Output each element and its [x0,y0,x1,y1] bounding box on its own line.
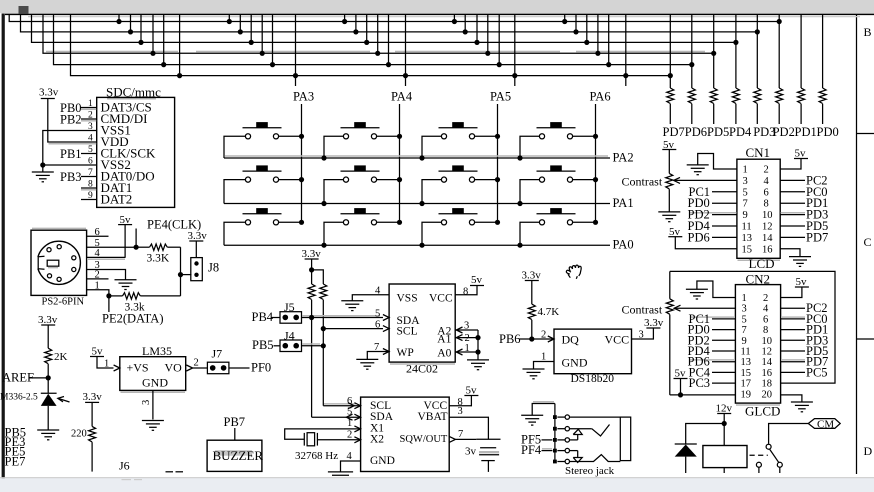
RTC SDA wire in [312,416,361,418]
svg-text:PD4: PD4 [729,125,752,139]
chrome: toolbar notch top-left [19,6,29,14]
relay switch common pole [766,444,771,449]
svg-text:5v: 5v [796,276,808,288]
svg-text:2: 2 [95,270,100,281]
svg-text:PB6: PB6 [499,332,521,346]
svg-text:PS2-6PIN: PS2-6PIN [42,297,85,308]
svg-text:PD6: PD6 [685,125,707,139]
CN1 pin16 wire to ground [780,249,800,257]
svg-text:PE2(DATA): PE2(DATA) [102,312,164,326]
PE4 label leader [135,229,137,248]
svg-text:3.3v: 3.3v [83,391,103,403]
svg-text:6: 6 [88,157,93,167]
S21 right wire [278,179,301,181]
svg-text:PB1: PB1 [60,147,82,161]
CN1 pin8 wire [780,202,805,204]
svg-text:WP: WP [397,347,414,359]
svg-text:5v: 5v [675,368,687,380]
ground at 24C02 address pins [467,360,489,370]
S32 right wire [376,221,399,223]
bus tap group 1 verticals [118,14,120,21]
SCL wire to 24C02 pin6 [323,328,383,330]
svg-text:GND: GND [370,455,395,467]
svg-text:6: 6 [764,187,769,198]
keypad column line PA3 [301,104,303,222]
relay switch common wire to CM [769,424,809,444]
S11 right wire [278,135,301,137]
CN1 pin7 wire [712,202,737,204]
svg-text:PB2: PB2 [60,113,82,127]
S24 right wire [572,179,595,181]
bus tap group 4 verticals (PA5) [453,14,455,21]
resistor 4.7K [531,281,533,305]
keypad row line PA2 [224,157,610,159]
CN1 pin10 wire [780,214,805,216]
svg-text:24C02: 24C02 [406,362,438,376]
CN1 pin12 wire [780,225,805,227]
svg-text:4.7K: 4.7K [538,306,560,318]
contrast trimmer R (GLCD) [669,271,671,298]
svg-text:17: 17 [741,379,752,390]
S22 left wire [324,180,344,204]
stereo jack tip contact wire [570,428,592,430]
ground for SDC VSS [32,172,54,182]
svg-text:5v: 5v [795,148,807,160]
junction at J8 [178,272,183,277]
SDC pin 6 VSS2 wire [43,164,97,166]
resistor 3.3k (DATA pullup) [109,295,123,297]
PF4 wire [542,450,553,452]
frame zone tick B/C [857,133,874,135]
bus tap group 4 junctions [452,19,457,24]
svg-text:PD7: PD7 [806,230,828,244]
tip switch stem [577,435,579,440]
backup battery 3v [476,438,500,440]
reference diode LM336-2.5 [41,392,57,394]
svg-text:SQW/OUT: SQW/OUT [400,434,448,445]
RTC SCL wire in [323,405,360,407]
svg-text:1: 1 [465,343,470,354]
svg-text:VSS: VSS [397,293,418,305]
svg-text:3.3v: 3.3v [302,248,322,260]
bus line h2 with left bend [21,14,758,32]
svg-text:13: 13 [742,233,753,244]
PS2 pin holes [47,248,51,252]
contrast wiper arrow to CN2 pin3 [675,307,736,309]
svg-text:PA0: PA0 [613,238,634,252]
svg-text:7: 7 [88,168,93,178]
stereo jack pin circles [565,415,569,419]
svg-text:3.3K: 3.3K [147,253,170,265]
SDC pin 7 stub [81,176,97,178]
resistor 2K (AREF) [47,325,49,348]
24C02 pin7 wire to ground [367,352,389,360]
svg-text:PF4: PF4 [521,443,542,457]
pushbutton S34 [537,208,576,225]
svg-text:3: 3 [742,304,747,315]
CN2 connector box [735,285,780,404]
svg-text:9: 9 [88,191,93,201]
CN2 pin6 wire [781,318,805,320]
bus tap group 3 verticals (PA4) [344,14,346,21]
svg-text:12: 12 [762,347,773,358]
pull-up resistor R-PD0 column [822,14,824,88]
24C02 address strap vertical [477,330,479,360]
svg-text:PD6: PD6 [688,230,710,244]
svg-text:1: 1 [95,280,100,291]
RTC SCL pin arrows [348,403,354,409]
SDC pin 3 wire to ground rail [43,131,97,173]
stereo jack pin links [557,416,565,418]
S11 left wire [224,136,246,158]
J6 dashes [166,471,174,473]
svg-text:3.3v: 3.3v [522,269,542,281]
svg-text:DS18b20: DS18b20 [571,373,615,385]
svg-text:PB7: PB7 [224,415,246,429]
svg-text:J6: J6 [119,459,130,473]
LM35 pin1 wire [97,357,114,369]
SDC pin 2 stub [81,118,97,120]
svg-text:3: 3 [464,320,469,331]
wire 12v to flyback diode [686,424,725,445]
jack mid contact wire [570,439,578,441]
svg-text:5: 5 [375,309,380,320]
stereo jack body [620,417,630,461]
svg-text:X1: X1 [370,422,384,434]
AREF wire [30,377,49,379]
svg-text:18: 18 [762,379,773,390]
svg-text:LM35: LM35 [142,344,172,358]
CN2 pin7 wire [712,329,735,331]
bus tap group 2 junctions [227,19,232,24]
svg-text:14: 14 [762,357,773,368]
bus line h3 with left bend [32,14,736,42]
CN1 pin13 wire [712,236,737,238]
contrast wiper arrow to CN1 pin3 [674,179,737,181]
LM35 output arrow [186,365,192,371]
svg-text:PD1: PD1 [795,125,817,139]
svg-text:PE7: PE7 [5,454,26,468]
svg-text:7: 7 [374,342,379,353]
CN2 pin8 wire [781,329,805,331]
pull-up resistor R-PD6 column [691,14,693,88]
ground at DS18b20 [523,369,545,379]
junctions on address strap [475,335,480,340]
I2C pullup feed wires [311,259,313,284]
CN2 pin11 wire [712,350,735,352]
svg-text:9: 9 [742,336,747,347]
RTC SDA pin arrows [346,414,352,420]
DS18b20 box [554,329,632,374]
svg-text:PA3: PA3 [293,90,314,104]
RTC DS1307 box [361,397,450,471]
svg-text:SCL: SCL [370,400,391,412]
svg-text:2K: 2K [54,351,68,363]
pushbutton S21 [243,165,282,182]
svg-text:M336-2.5: M336-2.5 [0,392,38,402]
CN2 pin12 wire [781,350,805,352]
pushbutton S14 [537,122,576,139]
CN2 pin1 wire to ground [697,281,736,298]
CN2 pin15 wire [712,371,735,373]
24C02 pin4 wire to ground [352,295,389,301]
RTC SQW/OUT pin7 wire [449,436,455,442]
CN1 pin1 wire to ground [698,154,737,170]
DS18b20 DQ arrow [548,336,554,342]
PS2 pin2 stub [87,278,109,280]
svg-text:SCL: SCL [397,325,418,337]
svg-text:3.3v: 3.3v [38,314,58,326]
junction 12v [722,421,727,426]
keypad row line PA1 [224,203,610,205]
svg-text:PA1: PA1 [613,196,634,210]
stereo jack ground [521,415,543,425]
24C02 pin8 wire to 5v [455,286,477,295]
PS2 key slot rect [47,260,59,266]
ground under LM35 [142,421,164,431]
pull-up resistor R-PD2 column [778,14,780,88]
chrome: bottom status strip [0,478,874,492]
svg-text:4: 4 [95,248,101,259]
12v feed wire [723,414,725,446]
svg-text:5v: 5v [466,385,478,397]
ground at CN2 pin1 [686,289,708,299]
PS2 pin6 stub [87,235,109,237]
bus tap group 5 verticals (PA6) [564,14,566,21]
svg-text:11: 11 [741,347,751,358]
svg-text:6: 6 [95,227,100,238]
pushbutton S24 [537,165,576,182]
svg-text:3.3v: 3.3v [644,317,664,329]
ground at CN1 pin1 [687,165,709,175]
svg-text:LCD: LCD [749,256,775,271]
svg-text:PD0: PD0 [817,125,839,139]
CN2 pin14 wire [781,361,805,363]
CN1 pin5 wire [712,191,737,193]
svg-text:14: 14 [762,233,773,244]
svg-text:PD5: PD5 [707,125,729,139]
ground at CN2 pin20 [791,402,813,412]
keypad junction dots on columns [299,134,304,139]
24C02 A1 pin2 wire [455,337,478,339]
svg-text:PA4: PA4 [391,90,413,104]
svg-text:J7: J7 [212,347,223,361]
svg-text:16: 16 [762,244,773,255]
CN2 pin13 wire [712,361,735,363]
PS2 pin3 wire to ground [87,270,126,280]
jack ring contact wire [570,450,578,452]
svg-text:BUZZER: BUZZER [213,448,264,463]
CN2 loop frame top to pin18 [670,271,835,383]
svg-text:4: 4 [763,304,769,315]
svg-text:6: 6 [763,314,768,325]
RTC VBAT wire to battery [449,417,488,439]
bus right end junctions on pull-up columns [668,73,673,78]
junction SDA at pullup [309,315,314,320]
svg-text:32768 Hz: 32768 Hz [295,450,338,462]
ring switch stem [577,451,579,458]
mouse hand cursor [566,265,581,279]
svg-text:C: C [864,235,872,249]
svg-text:15: 15 [742,244,753,255]
svg-text:1: 1 [347,418,352,429]
S33 left wire [422,222,442,245]
svg-text:Contrast: Contrast [622,302,663,316]
PS2 pin5 wire (CLK) [87,246,137,248]
CN2 pin4 wire [781,307,805,309]
net flag CM [808,419,840,429]
relay switch lever [770,449,779,463]
wire J8 to junction [181,274,192,276]
SDC/mmc connector box [97,97,175,207]
svg-text:8: 8 [88,180,93,190]
S23 right wire [474,179,497,181]
SDC pin 5 stub [81,153,97,155]
SDC pin 8 stub [81,187,97,189]
BUZZER box [207,440,262,471]
CN2 pin5 wire [712,318,735,320]
junction 5v pot [678,392,683,397]
svg-text:VBAT: VBAT [418,411,448,423]
relay coil bottom stub [723,468,725,473]
resistor 3.3K (CLK pullup) [150,244,168,250]
svg-text:2: 2 [347,429,352,440]
24C02 A0 pin1 wire [455,351,478,353]
svg-text:5: 5 [743,187,748,198]
jack bottom wire with spring bump [570,455,621,462]
S31 right wire [278,221,301,223]
CN1 pin6 wire [780,191,805,193]
svg-text:1: 1 [541,351,546,362]
resistor SDA pullup [308,284,315,300]
svg-text:GND: GND [562,356,588,370]
svg-text:PB5: PB5 [252,338,274,352]
CN2 pin19 wire [670,394,736,396]
pull-up resistor R-PD5 column [713,14,715,88]
svg-text:1: 1 [743,165,748,176]
keypad row line PA0 [224,244,610,246]
bus line h4 with left bend [43,14,714,53]
CN2 pin20 wire to ground [781,395,802,402]
CN2 pin17 wire [712,382,735,384]
PB6 wire to DQ [520,338,555,340]
svg-text:GLCD: GLCD [745,404,780,419]
bottom-left stray dashes [122,479,132,481]
chrome: top toolbar strip [0,0,874,13]
ground bar at RTC [328,471,353,473]
svg-text:7: 7 [742,325,747,336]
relay coil box [703,446,747,468]
PB4 wire to J5 [272,317,281,319]
svg-text:VCC: VCC [424,400,448,412]
pushbutton S12 [341,122,380,139]
S34 left wire [520,222,540,245]
svg-text:4: 4 [375,286,381,297]
tip switch triangle [573,429,582,434]
bus line h5 with left bend [54,14,692,64]
bus line h4 gray shadow [46,51,178,53]
svg-text:16: 16 [762,368,773,379]
svg-text:3.3v: 3.3v [39,87,59,99]
flyback diode [675,443,697,445]
RTC X2 arrow [354,437,360,443]
PS2 connector box [31,230,87,295]
svg-text:VO: VO [165,360,183,374]
J4 to SCL wire [302,345,324,347]
S13 right wire [474,135,497,137]
svg-text:CN1: CN1 [746,145,771,160]
svg-text:PD2: PD2 [773,125,795,139]
svg-text:4: 4 [347,451,353,462]
CN2 pin16 wire [781,371,805,373]
junction DATA pullup [106,293,111,298]
junction PB6 pullup [529,336,534,341]
CN2 pin9 wire [712,339,735,341]
RTC X1 arrow [354,426,360,432]
svg-text:3: 3 [639,329,644,340]
S22 right wire [376,179,399,181]
svg-text:PF0: PF0 [251,361,271,375]
CN1 pin4 wire [780,179,805,181]
svg-text:19: 19 [741,389,752,400]
pushbutton S33 [439,208,478,225]
SDC pin 4 VDD wire from 3.3v [48,99,97,143]
resistor 220 [91,402,93,426]
junction pullup branch [309,267,314,272]
svg-text:+VS: +VS [127,360,149,374]
crystal 32768Hz plates [303,433,305,446]
svg-text:5v: 5v [92,346,104,358]
svg-text:DAT2: DAT2 [101,192,133,207]
svg-text:PC3: PC3 [689,376,711,390]
svg-text:2: 2 [764,165,769,176]
ground at PS2 pin3 [115,280,137,290]
svg-text:VCC: VCC [605,333,630,347]
svg-text:DQ: DQ [562,333,580,347]
LM35 box [120,357,186,391]
pushbutton S22 [341,165,380,182]
bus top rail h0 [5,13,874,15]
svg-text:PA2: PA2 [613,151,634,165]
svg-text:4: 4 [764,176,770,187]
S12 right wire [376,135,399,137]
svg-text:Contrast: Contrast [622,175,663,189]
svg-text:5v: 5v [471,274,483,286]
junction PE4/CLK [134,245,139,250]
svg-text:1: 1 [88,99,93,109]
svg-text:SDA: SDA [370,411,394,423]
bus tap group 2 verticals (PA3) [228,14,230,21]
svg-text:D: D [864,444,873,458]
DS18b20 pin3 wire to 3.3v [632,328,654,339]
J5 to SDA wire [302,317,384,319]
keypad column line PA6 [595,104,597,222]
S32 left wire [324,222,344,245]
svg-text:PB3: PB3 [60,170,82,184]
svg-text:PA6: PA6 [590,90,611,104]
svg-text:5: 5 [88,145,93,155]
svg-text:PD7: PD7 [663,125,685,139]
svg-text:3.3v: 3.3v [188,230,208,242]
relay switch contacts [756,462,761,467]
svg-text:5: 5 [347,407,352,418]
PS2 connector circle [37,241,80,284]
RTC X1 wire [285,429,361,439]
chrome: left window edge bar [2,14,5,490]
svg-text:B: B [864,25,872,39]
crystal body [307,433,315,446]
jumper J8 [191,258,203,281]
